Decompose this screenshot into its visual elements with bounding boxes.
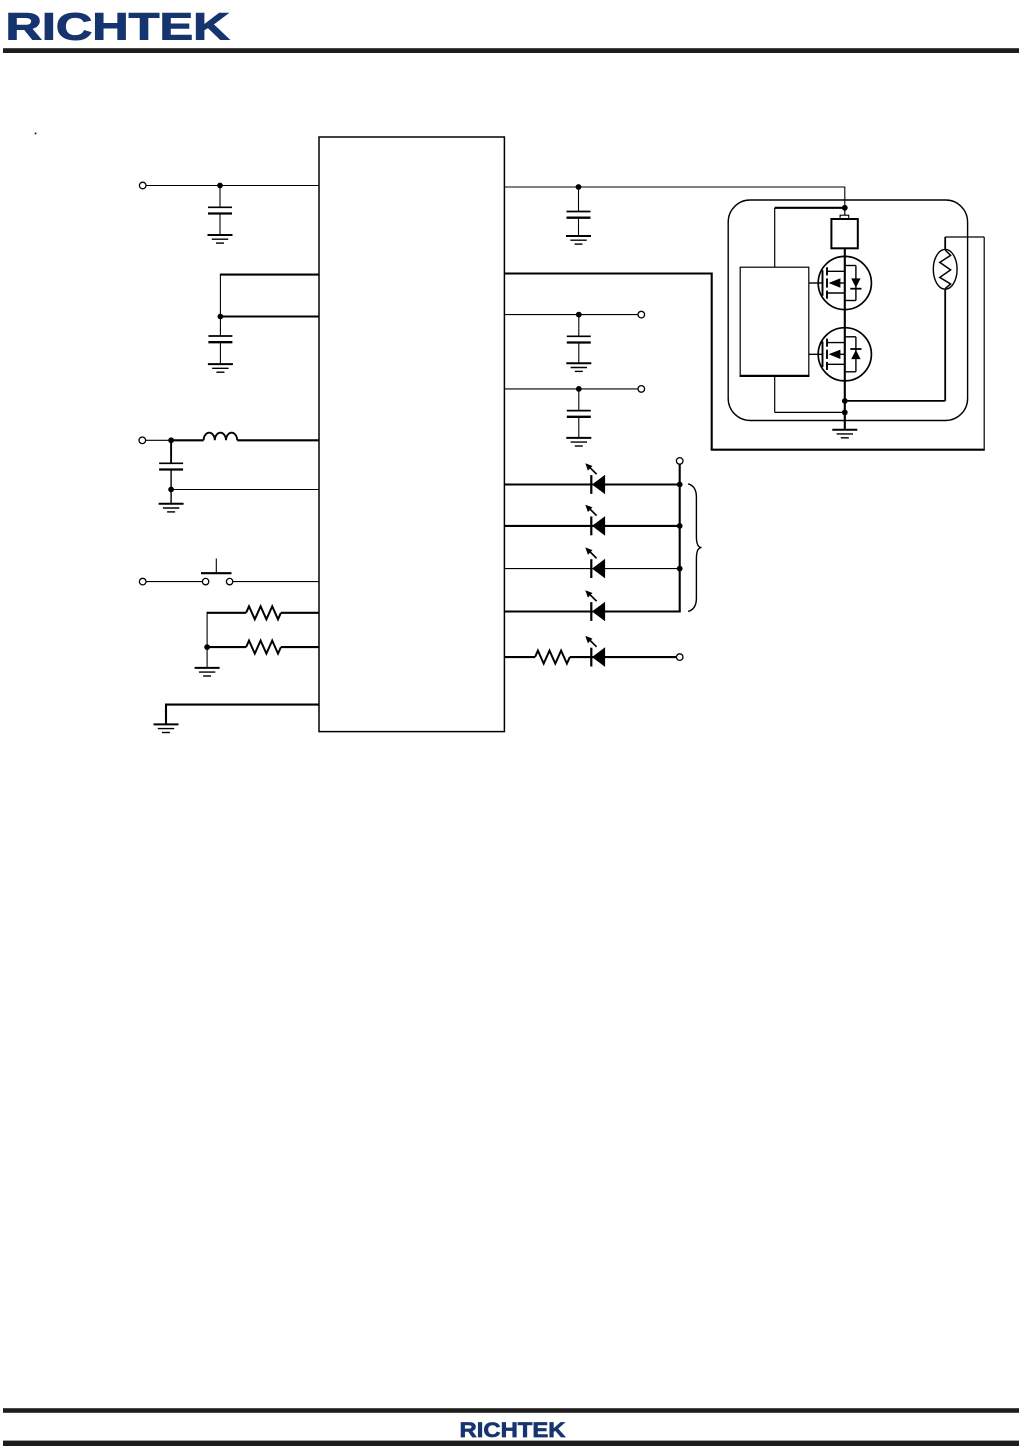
svg-text:RICHTEK: RICHTEK	[6, 6, 230, 49]
svg-text:RICHTEK: RICHTEK	[460, 1418, 567, 1442]
